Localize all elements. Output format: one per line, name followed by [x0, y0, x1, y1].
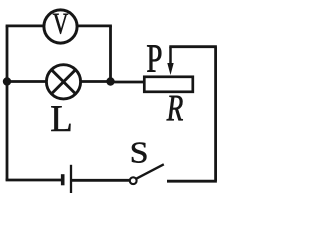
wire junction to rheostat [111, 81, 146, 84]
wire lamp to middle junction [81, 80, 111, 83]
lamp L [46, 65, 80, 99]
wire wiper to right rail [169, 45, 217, 48]
wire bottom left (rail to battery) [6, 179, 61, 182]
node left junction [3, 77, 11, 85]
resistor R (rheostat body) [144, 77, 193, 92]
wire top left (rail to voltmeter) [6, 24, 44, 27]
wire voltmeter to middle rail [77, 24, 112, 27]
wire right rail [214, 47, 217, 181]
wire left rail [6, 26, 9, 181]
wire battery to switch [72, 179, 130, 182]
label P [147, 45, 161, 71]
wiper arrow of rheostat [169, 47, 172, 66]
switch S lever [136, 164, 164, 179]
battery cell: long thin positive plate [70, 165, 72, 193]
wire left rail to lamp [7, 80, 47, 83]
battery cell: short thick negative plate [61, 174, 65, 185]
node middle junction [106, 77, 114, 85]
label S [132, 143, 146, 163]
switch S pivot [130, 177, 137, 184]
voltmeter V [44, 10, 77, 43]
wire middle rail (down to lamp junction) [109, 26, 112, 82]
wire switch to right rail [167, 180, 217, 183]
